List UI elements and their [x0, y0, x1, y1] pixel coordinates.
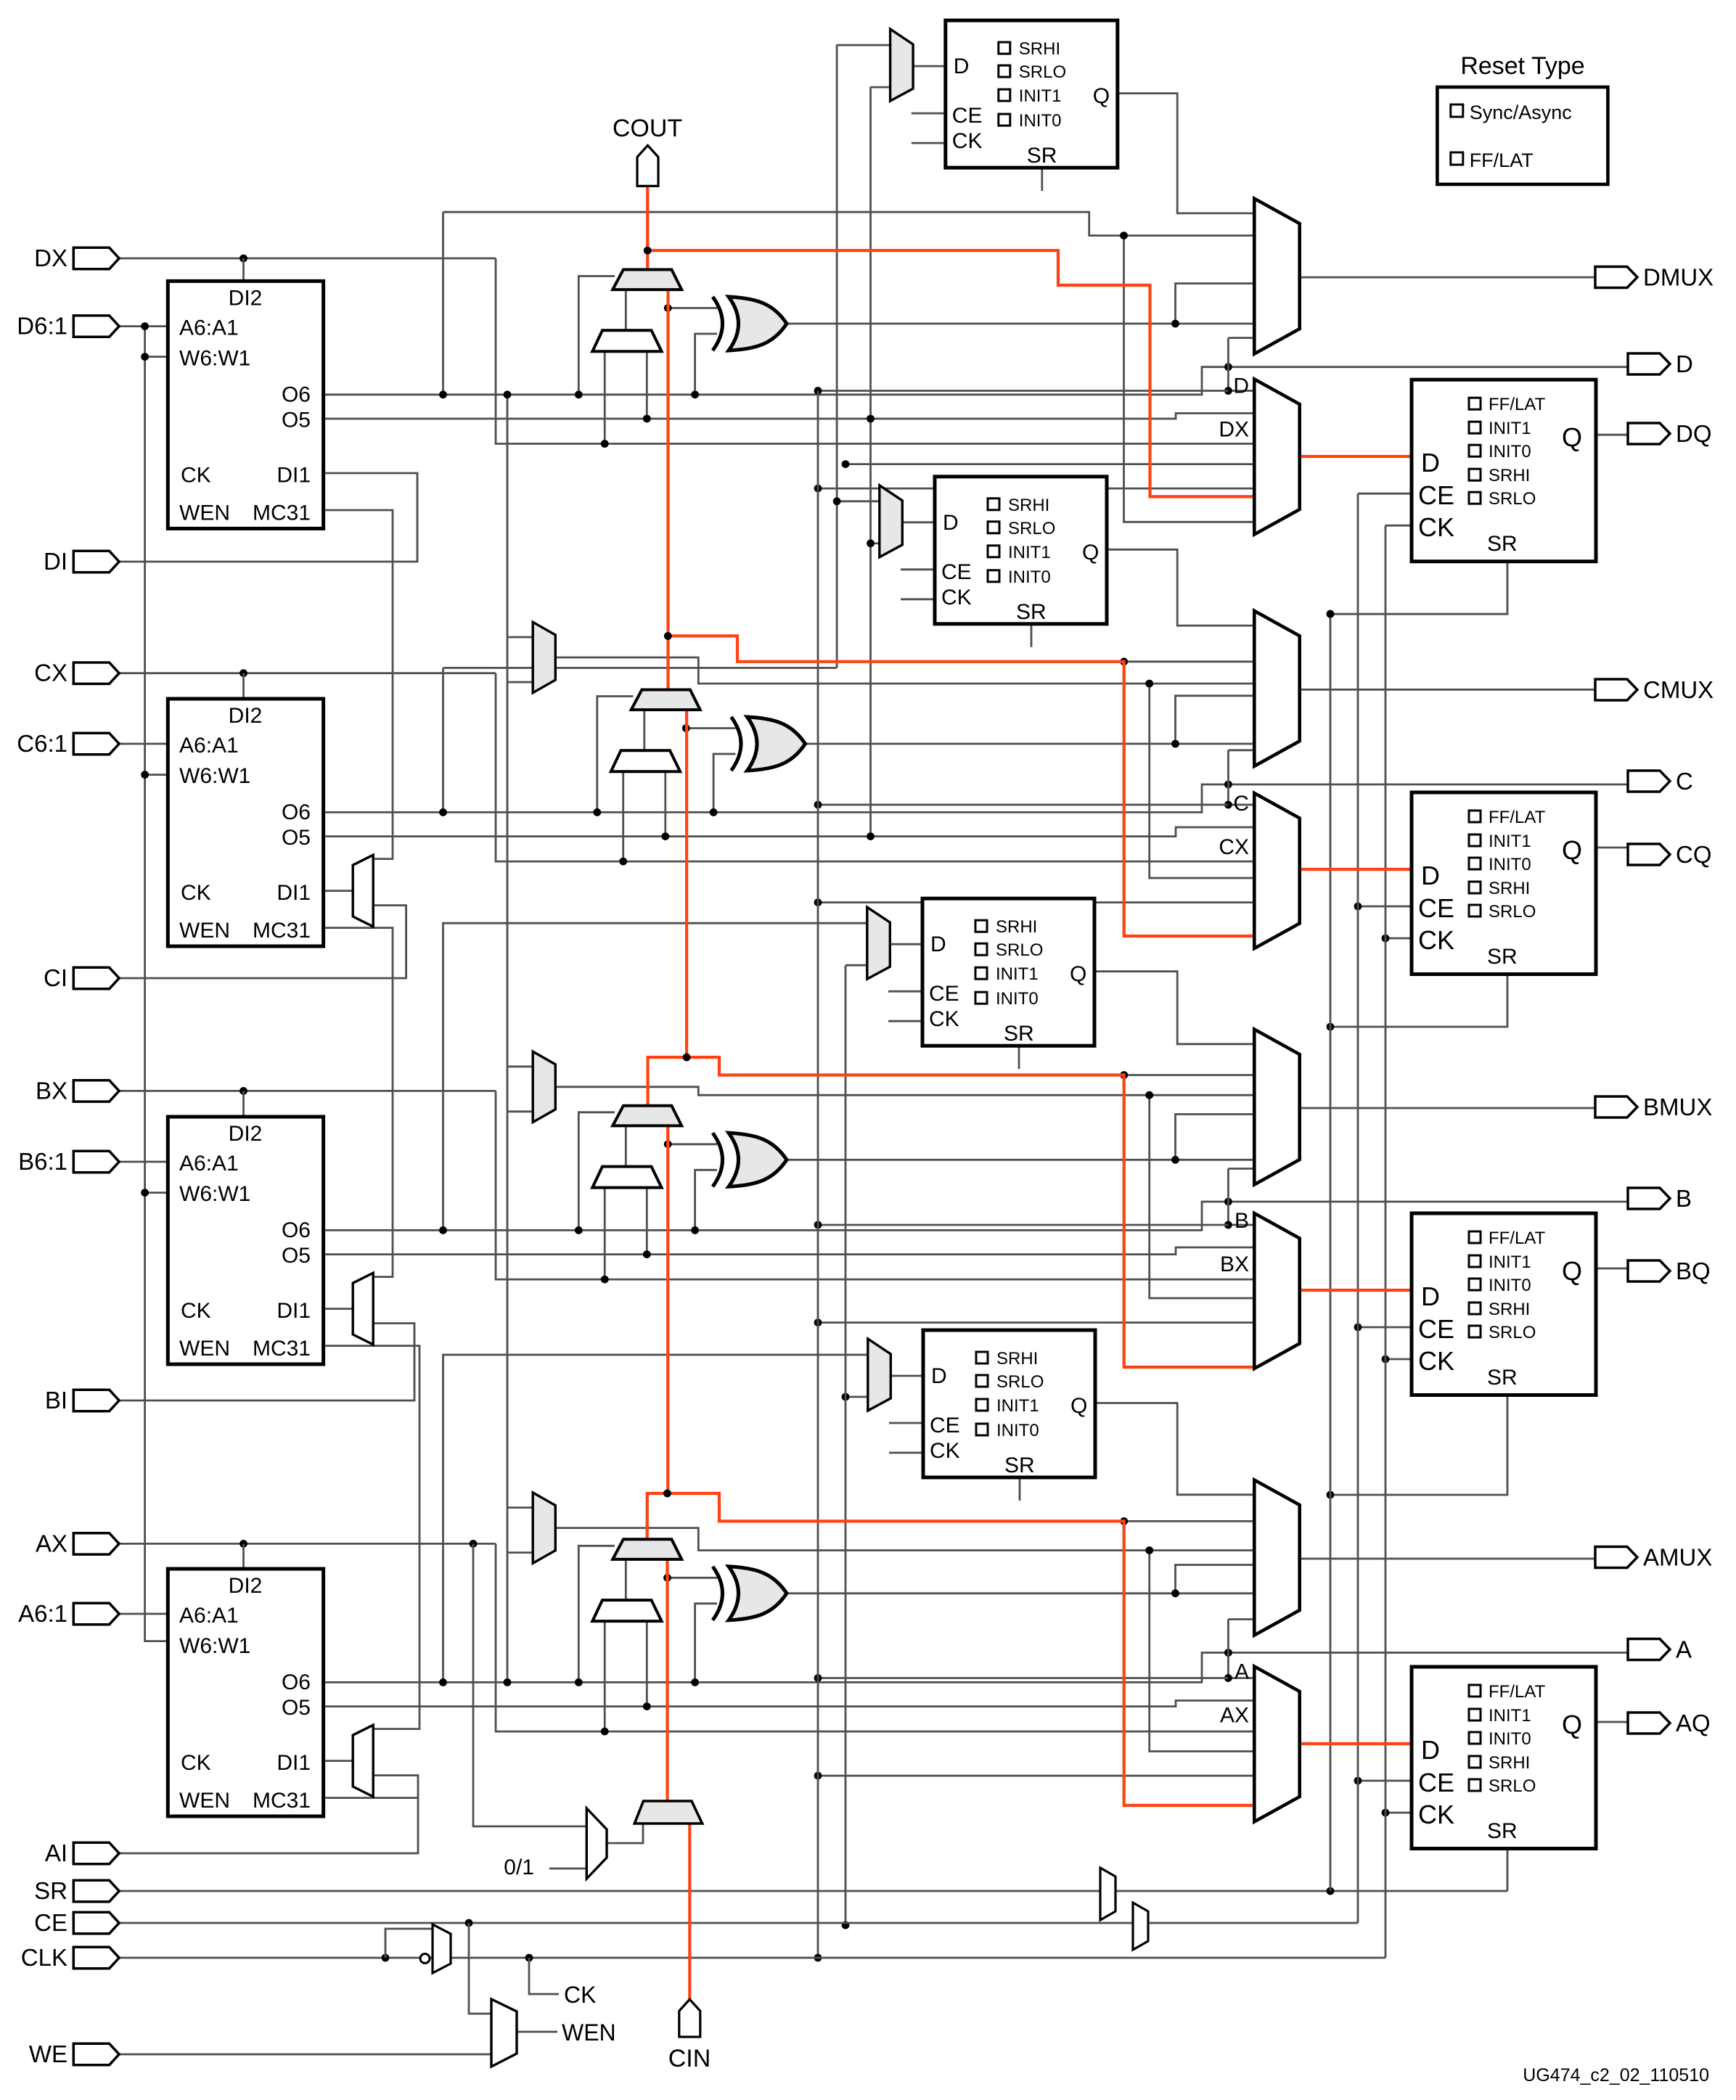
- svg-text:O6: O6: [282, 382, 311, 406]
- svg-text:SR: SR: [1487, 1819, 1518, 1843]
- svg-text:A: A: [1676, 1636, 1692, 1663]
- svg-text:BX: BX: [36, 1077, 67, 1104]
- svg-text:MC31: MC31: [253, 1789, 311, 1813]
- svg-text:CK: CK: [1418, 925, 1454, 955]
- svg-text:DX: DX: [1219, 418, 1249, 442]
- svg-text:BMUX: BMUX: [1643, 1094, 1712, 1120]
- svg-text:CK: CK: [930, 1439, 960, 1463]
- svg-text:COUT: COUT: [613, 115, 682, 142]
- svg-text:WEN: WEN: [179, 1789, 230, 1813]
- svg-text:A6:A1: A6:A1: [179, 1152, 239, 1176]
- svg-text:D: D: [930, 932, 946, 956]
- svg-text:SRLO: SRLO: [1489, 902, 1536, 922]
- svg-text:INIT0: INIT0: [1489, 1276, 1531, 1295]
- svg-text:DI2: DI2: [229, 704, 263, 728]
- svg-text:INIT0: INIT0: [1489, 442, 1531, 462]
- svg-text:SRHI: SRHI: [996, 917, 1037, 937]
- svg-text:Q: Q: [1070, 962, 1086, 986]
- svg-text:WE: WE: [29, 2040, 67, 2067]
- svg-text:CE: CE: [1418, 1768, 1454, 1797]
- svg-text:A6:A1: A6:A1: [179, 1604, 239, 1628]
- svg-text:AI: AI: [45, 1839, 67, 1866]
- svg-text:W6:W1: W6:W1: [179, 1634, 250, 1658]
- svg-text:W6:W1: W6:W1: [179, 1182, 250, 1206]
- svg-text:UG474_c2_02_110510: UG474_c2_02_110510: [1523, 2065, 1709, 2085]
- svg-text:CE: CE: [1418, 480, 1454, 510]
- svg-text:O5: O5: [282, 408, 311, 432]
- svg-text:FF/LAT: FF/LAT: [1489, 1682, 1546, 1702]
- svg-text:SRLO: SRLO: [1489, 1323, 1536, 1342]
- svg-text:W6:W1: W6:W1: [179, 346, 250, 370]
- svg-text:C: C: [1676, 768, 1693, 795]
- svg-text:O6: O6: [282, 1670, 311, 1694]
- svg-text:SR: SR: [1487, 532, 1518, 556]
- svg-text:Q: Q: [1070, 1394, 1087, 1418]
- svg-text:DI2: DI2: [229, 286, 263, 310]
- svg-text:D: D: [1421, 448, 1440, 477]
- svg-text:CE: CE: [34, 1909, 67, 1936]
- svg-text:CK: CK: [181, 1751, 211, 1775]
- svg-text:FF/LAT: FF/LAT: [1489, 395, 1546, 414]
- svg-text:FF/LAT: FF/LAT: [1489, 1229, 1546, 1248]
- svg-text:A6:1: A6:1: [18, 1600, 67, 1627]
- svg-text:D: D: [931, 1364, 947, 1388]
- svg-text:D6:1: D6:1: [17, 313, 67, 340]
- svg-text:BX: BX: [1220, 1252, 1249, 1276]
- svg-text:SR: SR: [34, 1877, 67, 1904]
- svg-text:MC31: MC31: [253, 1337, 311, 1361]
- svg-text:Q: Q: [1093, 84, 1110, 108]
- svg-text:WEN: WEN: [179, 501, 230, 525]
- svg-text:SR: SR: [1487, 1366, 1518, 1390]
- svg-text:DI1: DI1: [277, 1299, 311, 1323]
- svg-text:CK: CK: [181, 1299, 211, 1323]
- svg-text:C: C: [1233, 792, 1249, 816]
- svg-text:INIT0: INIT0: [1489, 855, 1531, 874]
- svg-text:CE: CE: [952, 104, 983, 128]
- svg-text:Q: Q: [1562, 1710, 1582, 1739]
- svg-text:CIN: CIN: [668, 2045, 711, 2072]
- svg-text:BQ: BQ: [1676, 1258, 1711, 1284]
- svg-text:INIT0: INIT0: [1489, 1729, 1531, 1749]
- svg-text:SRLO: SRLO: [1489, 489, 1536, 509]
- svg-text:DI1: DI1: [277, 881, 311, 905]
- svg-text:CE: CE: [1418, 1314, 1454, 1344]
- svg-text:CK: CK: [929, 1007, 959, 1031]
- svg-text:SRLO: SRLO: [1008, 519, 1055, 538]
- svg-text:D: D: [954, 54, 970, 78]
- svg-text:SRHI: SRHI: [1008, 496, 1049, 515]
- svg-text:SRHI: SRHI: [1489, 1753, 1530, 1773]
- svg-text:D: D: [1421, 1281, 1440, 1311]
- svg-text:SRHI: SRHI: [996, 1349, 1038, 1369]
- svg-text:0/1: 0/1: [504, 1855, 534, 1879]
- svg-text:DI1: DI1: [277, 463, 311, 487]
- svg-text:DMUX: DMUX: [1643, 264, 1714, 291]
- svg-text:SRHI: SRHI: [1489, 879, 1530, 898]
- svg-text:INIT0: INIT0: [1019, 111, 1062, 131]
- svg-text:SR: SR: [1004, 1022, 1034, 1046]
- svg-text:WEN: WEN: [179, 919, 230, 943]
- svg-text:INIT1: INIT1: [996, 964, 1039, 984]
- svg-text:SRHI: SRHI: [1489, 466, 1530, 485]
- svg-text:W6:W1: W6:W1: [179, 764, 250, 788]
- svg-text:CK: CK: [181, 463, 211, 487]
- svg-text:CK: CK: [1418, 1800, 1454, 1829]
- svg-text:CE: CE: [941, 560, 972, 584]
- svg-text:A6:A1: A6:A1: [179, 734, 239, 758]
- svg-text:D: D: [1676, 350, 1693, 377]
- svg-text:SRLO: SRLO: [1489, 1776, 1536, 1796]
- svg-text:SRLO: SRLO: [996, 940, 1043, 960]
- svg-text:WEN: WEN: [179, 1337, 230, 1361]
- svg-text:DI2: DI2: [229, 1574, 263, 1598]
- svg-text:Q: Q: [1562, 422, 1582, 452]
- svg-text:Q: Q: [1562, 835, 1582, 865]
- svg-text:CLK: CLK: [21, 1944, 67, 1971]
- svg-text:INIT1: INIT1: [1019, 86, 1062, 106]
- svg-text:DI2: DI2: [229, 1122, 263, 1146]
- svg-text:SRHI: SRHI: [1019, 39, 1060, 59]
- svg-text:SR: SR: [1004, 1453, 1035, 1477]
- svg-text:Reset Type: Reset Type: [1460, 52, 1584, 80]
- svg-text:D: D: [943, 511, 959, 535]
- svg-text:SRLO: SRLO: [996, 1372, 1044, 1392]
- svg-text:SR: SR: [1487, 945, 1518, 969]
- svg-text:CE: CE: [930, 1414, 960, 1437]
- svg-text:D: D: [1421, 1735, 1440, 1765]
- svg-text:WEN: WEN: [562, 2019, 616, 2046]
- svg-text:CQ: CQ: [1676, 841, 1712, 868]
- svg-text:MC31: MC31: [253, 919, 311, 943]
- svg-text:CK: CK: [1418, 1346, 1454, 1376]
- svg-text:O5: O5: [282, 826, 311, 850]
- svg-text:INIT1: INIT1: [1489, 1252, 1531, 1272]
- svg-text:DQ: DQ: [1676, 420, 1712, 447]
- svg-text:CK: CK: [564, 1982, 596, 2008]
- svg-text:FF/LAT: FF/LAT: [1489, 808, 1546, 827]
- svg-text:B6:1: B6:1: [18, 1148, 67, 1175]
- svg-text:CX: CX: [1219, 835, 1249, 859]
- svg-text:INIT1: INIT1: [1008, 543, 1051, 562]
- svg-text:DI1: DI1: [277, 1751, 311, 1775]
- svg-text:O5: O5: [282, 1696, 311, 1720]
- svg-text:AQ: AQ: [1676, 1710, 1711, 1736]
- svg-text:BI: BI: [45, 1387, 67, 1414]
- svg-text:INIT1: INIT1: [1489, 1706, 1531, 1726]
- svg-text:DX: DX: [34, 245, 67, 271]
- svg-text:INIT1: INIT1: [1489, 419, 1531, 438]
- svg-text:SRLO: SRLO: [1019, 62, 1066, 82]
- svg-text:CK: CK: [952, 129, 983, 153]
- svg-text:Q: Q: [1082, 541, 1099, 565]
- svg-text:D: D: [1421, 861, 1440, 890]
- svg-text:SRHI: SRHI: [1489, 1300, 1530, 1319]
- svg-text:CK: CK: [181, 881, 211, 905]
- svg-text:DI: DI: [44, 548, 67, 575]
- svg-text:INIT0: INIT0: [996, 1421, 1039, 1440]
- svg-text:INIT1: INIT1: [996, 1396, 1039, 1416]
- svg-text:B: B: [1676, 1185, 1692, 1212]
- svg-text:FF/LAT: FF/LAT: [1470, 149, 1534, 171]
- svg-text:CI: CI: [44, 964, 67, 991]
- svg-text:AX: AX: [1220, 1704, 1249, 1728]
- svg-text:Q: Q: [1562, 1256, 1582, 1286]
- svg-text:B: B: [1235, 1209, 1249, 1233]
- svg-text:SR: SR: [1016, 600, 1047, 624]
- svg-text:CK: CK: [1418, 512, 1454, 542]
- svg-text:INIT0: INIT0: [1008, 567, 1051, 587]
- svg-text:O6: O6: [282, 800, 311, 824]
- svg-text:INIT0: INIT0: [996, 989, 1039, 1009]
- svg-text:CMUX: CMUX: [1643, 676, 1714, 703]
- svg-text:CE: CE: [1418, 893, 1454, 923]
- svg-text:AX: AX: [36, 1530, 67, 1556]
- svg-text:MC31: MC31: [253, 501, 311, 525]
- svg-text:C6:1: C6:1: [17, 730, 67, 757]
- svg-text:O6: O6: [282, 1218, 311, 1242]
- svg-text:AMUX: AMUX: [1643, 1544, 1712, 1571]
- svg-text:CX: CX: [34, 660, 67, 686]
- svg-text:A: A: [1235, 1660, 1249, 1684]
- svg-text:CE: CE: [929, 982, 959, 1006]
- svg-text:D: D: [1233, 374, 1249, 398]
- svg-text:SR: SR: [1027, 144, 1057, 168]
- svg-text:A6:A1: A6:A1: [179, 316, 239, 340]
- svg-text:Sync/Async: Sync/Async: [1470, 102, 1572, 123]
- svg-text:INIT1: INIT1: [1489, 832, 1531, 851]
- svg-text:O5: O5: [282, 1244, 311, 1268]
- svg-text:CK: CK: [941, 586, 972, 610]
